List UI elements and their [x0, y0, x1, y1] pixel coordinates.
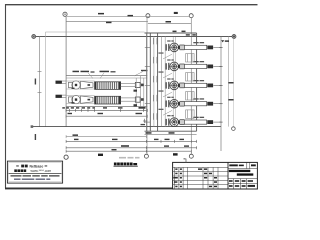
riser pipe pair x173-175	[172, 37, 174, 122]
pipe from pump P2	[184, 64, 220, 68]
vertical grid line x45.5	[45, 32, 47, 127]
elevation texts right side	[228, 82, 233, 101]
vertical grid line x39.5	[39, 37, 41, 127]
title block right rows3-4 texts	[229, 180, 255, 187]
plan view bottom edge	[66, 106, 147, 108]
bell bars row gap 2	[153, 76, 157, 83]
pump label P1	[167, 40, 174, 41]
title block project title line1	[229, 170, 251, 172]
vertical axis line x191	[190, 18, 192, 154]
pipe label P5	[193, 117, 204, 118]
valve box row2	[135, 97, 143, 102]
right dimension line x221	[220, 37, 222, 152]
pipe label P3	[193, 80, 204, 81]
dimension line y110.4	[66, 109, 147, 112]
axis bubble bottom x66	[64, 155, 68, 159]
ground line y126.6 with small left bubble	[31, 125, 221, 128]
pump P4	[166, 99, 184, 109]
row ticks on section left wall	[145, 47, 151, 122]
pipe label P2	[193, 61, 204, 62]
pipe from pump P1	[184, 45, 220, 49]
plan right header pipes vertical x143.8	[143, 78, 145, 110]
small junction blocks at plan right	[134, 90, 138, 107]
plan right header pipes vertical x136	[135, 78, 137, 107]
dim text row y139.2	[74, 139, 184, 140]
discharge pipe stubs row1	[121, 83, 136, 86]
plan view label texts above with leaders	[73, 71, 116, 73]
watermark separator line	[8, 172, 61, 174]
long dimension line y147.8	[66, 146, 197, 149]
watermark line1 tilde left	[16, 165, 19, 166]
axis bubble left end of main axis	[32, 35, 36, 39]
section wall line x165.2	[164, 37, 166, 127]
bell bars row gap 3	[153, 95, 157, 102]
axis bubble right end of main axis	[232, 35, 236, 39]
discharge pipe stubs row2	[121, 98, 136, 101]
svg-text:NetEase: NetEase	[30, 164, 44, 168]
title block right rows3-4 verticals	[234, 179, 247, 189]
leader between rows 2	[163, 73, 172, 78]
section bottom slab line y131.2	[145, 130, 197, 132]
section view top slab line	[145, 32, 197, 34]
tick on dim line x221 row 1	[219, 46, 222, 48]
tick on dim line x221 row 3	[219, 84, 222, 86]
bell bars above pump P1	[153, 38, 157, 45]
dim text row y113.4	[68, 113, 143, 114]
axis bubble A top-left	[63, 12, 67, 16]
right wall line x228.6	[228, 37, 230, 127]
plan view title underline	[114, 165, 138, 167]
inlet funnel between P2 and P3	[186, 73, 195, 81]
dimension text specks top	[98, 12, 178, 23]
title block divider to right part	[227, 162, 229, 189]
valve box row1	[135, 82, 143, 87]
dim text row y107.6 below plan	[62, 107, 145, 109]
hatched foundation block row1	[95, 82, 121, 90]
tick on dim line x221 row 2	[219, 65, 222, 67]
title block right row1 divider lines	[228, 168, 257, 170]
leader between rows 1	[163, 54, 172, 59]
plan right header pipes vertical x140.6	[140, 76, 142, 107]
title block left table verticals	[174, 167, 218, 189]
title block left table horizontals	[173, 167, 228, 184]
upper long line y32	[46, 31, 145, 33]
dimension line y116.2	[66, 115, 147, 118]
title block left cell text specks	[173, 168, 217, 187]
pump label P3	[167, 78, 174, 79]
dimension line y21.5 left span	[66, 21, 148, 23]
pump label P4	[167, 97, 174, 98]
dim text row y145.9	[121, 145, 189, 147]
suction flange bar row1	[56, 81, 67, 84]
svg-text:www.****.com: www.****.com	[31, 169, 52, 173]
pump plan symbol row2	[66, 95, 95, 103]
tick on dim line x221 row 5	[219, 121, 222, 123]
pipe from pump P5	[184, 120, 220, 124]
texts between bottom slab lines	[146, 132, 175, 134]
leader between rows 4	[163, 111, 172, 116]
watermark line1 tilde right	[45, 165, 48, 166]
long dimension line y141.4	[66, 140, 197, 143]
section bottom slab line y134.3	[145, 133, 197, 135]
faint note text above plan title	[119, 157, 140, 159]
pump label P5	[167, 115, 174, 116]
tick on dim line x221 row 4	[219, 103, 222, 105]
border frame top	[5, 4, 258, 6]
leader between rows 3	[163, 92, 172, 97]
leader to plan right labels	[134, 72, 143, 77]
pipe from pump P3	[184, 83, 220, 87]
vertical axis line x66	[65, 16, 67, 126]
bell bars row gap 4	[153, 113, 157, 120]
small ticks above ground line right of plan	[143, 119, 147, 123]
main horizontal axis line y36.5	[36, 36, 233, 38]
section wall line x196.6	[196, 33, 198, 131]
title block right row1 texts	[229, 164, 256, 166]
inlet funnel between P1 and P2	[186, 54, 195, 62]
watermark box outer frame	[7, 161, 62, 183]
hatched foundation block row2	[95, 96, 121, 104]
pump P2	[166, 62, 184, 72]
plan view title dark text	[114, 163, 137, 166]
pump P3	[166, 81, 184, 91]
axis bubble bottom x191.3	[189, 154, 193, 158]
elevation flag near x222	[221, 40, 229, 42]
pump P5	[166, 117, 184, 127]
leader line on plan labels	[88, 73, 93, 79]
watermark line1 CJK bold glyphs	[21, 165, 24, 168]
pipe from pump P4	[184, 102, 220, 106]
inlet funnel between P4 and P5	[186, 110, 195, 118]
bell bars row gap 1	[153, 57, 157, 64]
axis bubble right bottom	[232, 127, 236, 131]
tick marks on x39.5	[38, 72, 42, 93]
title block mark above	[185, 159, 187, 163]
pipe label P4	[193, 98, 204, 99]
wire top axis horizontal line y16	[67, 15, 189, 17]
overall dimension line y151.2	[66, 150, 191, 153]
span label Lp	[173, 153, 178, 155]
border frame bottom	[5, 188, 258, 190]
right axis faint vertical x233.7	[233, 39, 235, 127]
watermark box inner frame	[9, 162, 62, 181]
pump plan symbol row1	[66, 81, 95, 89]
left lower dim line y136.6	[66, 135, 146, 138]
title block right row4 line	[228, 183, 257, 185]
plan view top edge double line	[66, 75, 147, 77]
axis bubble bottom x146.4	[144, 154, 148, 158]
span label Lb	[98, 154, 103, 156]
dimension line y23.5 right span	[148, 23, 191, 25]
section wall line x157.6	[157, 33, 159, 131]
pipe label P1	[193, 42, 204, 43]
title block outer frame	[173, 162, 258, 189]
rotated dim text specks near x39.5	[35, 79, 36, 141]
border frame left	[5, 4, 7, 188]
pump label P2	[167, 59, 174, 60]
watermark line4 small text	[14, 179, 50, 180]
pump P1	[166, 43, 184, 53]
section wall line x161.5	[161, 37, 163, 127]
suction flange bar row2	[56, 95, 67, 98]
title block project title line2	[237, 173, 254, 175]
axis bubble B top-mid	[146, 14, 150, 18]
inlet funnel between P3 and P4	[186, 92, 195, 100]
section wall line x146.4	[145, 33, 147, 131]
section wall line x150.3	[149, 33, 151, 131]
watermark line3 small text	[11, 175, 60, 177]
vertical axis line x147	[146, 18, 148, 154]
title block right row3 line	[228, 178, 257, 180]
axis bubble C top-right	[189, 14, 193, 18]
section wall line x153.9	[153, 37, 155, 127]
watermark line2 CJK bold glyphs	[14, 169, 26, 172]
